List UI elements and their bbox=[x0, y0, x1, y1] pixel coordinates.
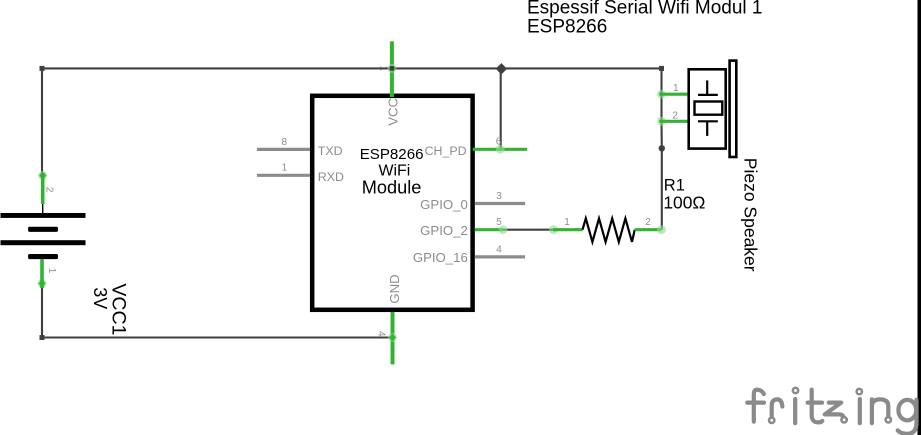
battery plate long bbox=[1, 240, 86, 245]
wire bbox=[660, 121, 662, 148]
wire bbox=[41, 284, 43, 338]
pin TXD bbox=[257, 148, 310, 151]
svg-text:6: 6 bbox=[496, 137, 502, 148]
svg-text:CH_PD: CH_PD bbox=[425, 144, 467, 158]
svg-text:3: 3 bbox=[496, 191, 502, 202]
piezo pin 1 (green) bbox=[657, 90, 666, 99]
piezo right bar bbox=[730, 61, 737, 157]
battery VCC1 bbox=[1, 171, 130, 335]
svg-text:4: 4 bbox=[496, 244, 502, 255]
node at piezo corner bbox=[659, 66, 664, 71]
svg-text:1: 1 bbox=[564, 217, 570, 228]
letter r bbox=[772, 399, 783, 416]
piezo pin 2 (green) bbox=[657, 117, 666, 126]
resistor zigzag bbox=[583, 218, 635, 242]
svg-text:GND: GND bbox=[387, 274, 402, 303]
pin CH_PD bbox=[473, 148, 527, 151]
battery plate long top bbox=[1, 213, 86, 218]
svg-text:GPIO_0: GPIO_0 bbox=[420, 197, 468, 212]
svg-text:1: 1 bbox=[282, 163, 288, 174]
fritzing watermark logo bbox=[747, 390, 916, 434]
wire bbox=[500, 68, 502, 151]
ring n bbox=[886, 417, 891, 422]
svg-text:5: 5 bbox=[496, 217, 502, 228]
letter i1 bbox=[793, 399, 797, 423]
battery pin 2 wire (green) bbox=[38, 171, 47, 180]
wire bbox=[41, 67, 43, 176]
letter i2 bbox=[858, 399, 862, 423]
svg-text:ESP8266: ESP8266 bbox=[527, 17, 607, 38]
wire bbox=[503, 229, 554, 231]
svg-text:TXD: TXD bbox=[318, 144, 343, 158]
svg-text:RXD: RXD bbox=[318, 170, 344, 184]
svg-text:2: 2 bbox=[645, 217, 651, 228]
letter g bbox=[898, 400, 917, 434]
wire bbox=[661, 148, 663, 229]
wire bbox=[660, 68, 662, 94]
svg-text:2: 2 bbox=[672, 111, 678, 122]
wire bbox=[660, 94, 662, 121]
resistor pin 1 (green) bbox=[549, 225, 558, 234]
letter z bbox=[825, 403, 844, 417]
piezo speaker bbox=[657, 61, 760, 272]
pin GPIO_0 bbox=[475, 202, 525, 205]
battery plate short bbox=[28, 227, 58, 232]
battery pin 1 wire (green) bbox=[38, 279, 47, 288]
frame right edge bbox=[918, 0, 921, 435]
op module ESP8266 U1 bbox=[257, 41, 527, 364]
letter f bbox=[754, 390, 764, 422]
ring i1 dot bbox=[793, 388, 798, 393]
pin GPIO_16 bbox=[475, 255, 525, 258]
svg-text:ESP8266: ESP8266 bbox=[360, 146, 424, 163]
svg-text:3V: 3V bbox=[90, 287, 110, 309]
svg-text:8: 8 bbox=[282, 137, 288, 148]
letter t bbox=[812, 390, 823, 423]
battery plate short bottom bbox=[28, 254, 58, 259]
module body bbox=[312, 96, 472, 310]
pin RXD bbox=[257, 174, 310, 177]
wire bbox=[42, 336, 393, 338]
svg-text:Module: Module bbox=[362, 178, 422, 198]
svg-text:GPIO_16: GPIO_16 bbox=[413, 250, 468, 265]
piezo plate bottom (T) bbox=[698, 120, 718, 122]
wire bbox=[42, 67, 662, 69]
svg-text:Piezo Speaker: Piezo Speaker bbox=[740, 158, 760, 272]
ring z bbox=[841, 417, 846, 422]
letter n bbox=[872, 399, 888, 423]
svg-text:100Ω: 100Ω bbox=[663, 193, 705, 213]
pin GND (bottom) bbox=[391, 312, 395, 364]
piezo plate top (inverted T) bbox=[706, 80, 708, 95]
svg-text:1: 1 bbox=[673, 83, 679, 94]
node wire bendpoint bbox=[659, 145, 665, 151]
piezo body bbox=[689, 69, 726, 148]
ring i2 dot bbox=[857, 389, 862, 394]
resistor R1 bbox=[549, 176, 705, 242]
pin VCC (top) bbox=[390, 41, 394, 97]
ring r bbox=[769, 418, 774, 423]
battery pin 2 lead bbox=[42, 204, 44, 213]
svg-text:4: 4 bbox=[376, 331, 387, 337]
resistor pin 2 (green) bbox=[635, 228, 662, 231]
svg-text:2: 2 bbox=[43, 187, 54, 193]
node top-left corner bbox=[40, 66, 45, 71]
svg-text:VCC: VCC bbox=[385, 97, 400, 125]
svg-text:GPIO_2: GPIO_2 bbox=[420, 223, 468, 238]
piezo crystal box bbox=[695, 102, 723, 115]
pin GPIO_2 bbox=[475, 228, 503, 231]
node at VCC pin bbox=[390, 66, 395, 71]
node junction diamond bbox=[496, 63, 507, 74]
node bottom-left corner bbox=[40, 335, 45, 340]
svg-text:1: 1 bbox=[46, 268, 57, 274]
